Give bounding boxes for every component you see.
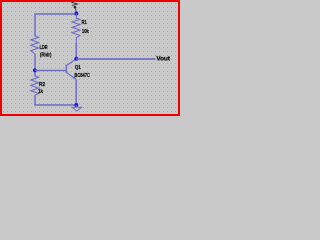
svg-text:BC847C: BC847C	[74, 73, 90, 79]
node: ground junction dot	[74, 103, 78, 107]
svg-text:Q1: Q1	[75, 65, 81, 71]
wire: output wire to Vout	[76, 58, 155, 60]
wire: R1 bottom to collector node	[75, 43, 77, 59]
ground symbol	[72, 105, 82, 111]
svg-text:LDR: LDR	[40, 45, 48, 51]
resistor R2 body	[31, 76, 39, 95]
svg-text:R2: R2	[39, 82, 45, 88]
svg-text:(Rldr): (Rldr)	[40, 53, 52, 59]
node: junction dot at power feed	[74, 12, 78, 16]
svg-text:10k: 10k	[82, 29, 90, 35]
node: base junction dot	[33, 68, 37, 72]
node: collector junction dot	[74, 57, 78, 61]
svg-text:1k: 1k	[38, 89, 44, 95]
resistor LDR body	[31, 36, 39, 54]
wire: R2 bottom, bottom rail, emitter riser	[35, 79, 76, 105]
wire: top rail from power node left and down to LDR	[35, 14, 76, 36]
svg-text:R1: R1	[82, 20, 87, 26]
power supply symbol V+ (arrow up)	[72, 2, 78, 13]
svg-text:Vout: Vout	[156, 56, 170, 62]
wire: base wire from junction to transistor base	[35, 70, 66, 72]
transistor Q1	[66, 59, 76, 79]
resistor R1 body	[72, 14, 80, 45]
wire: LDR bottom to base node	[34, 54, 36, 77]
